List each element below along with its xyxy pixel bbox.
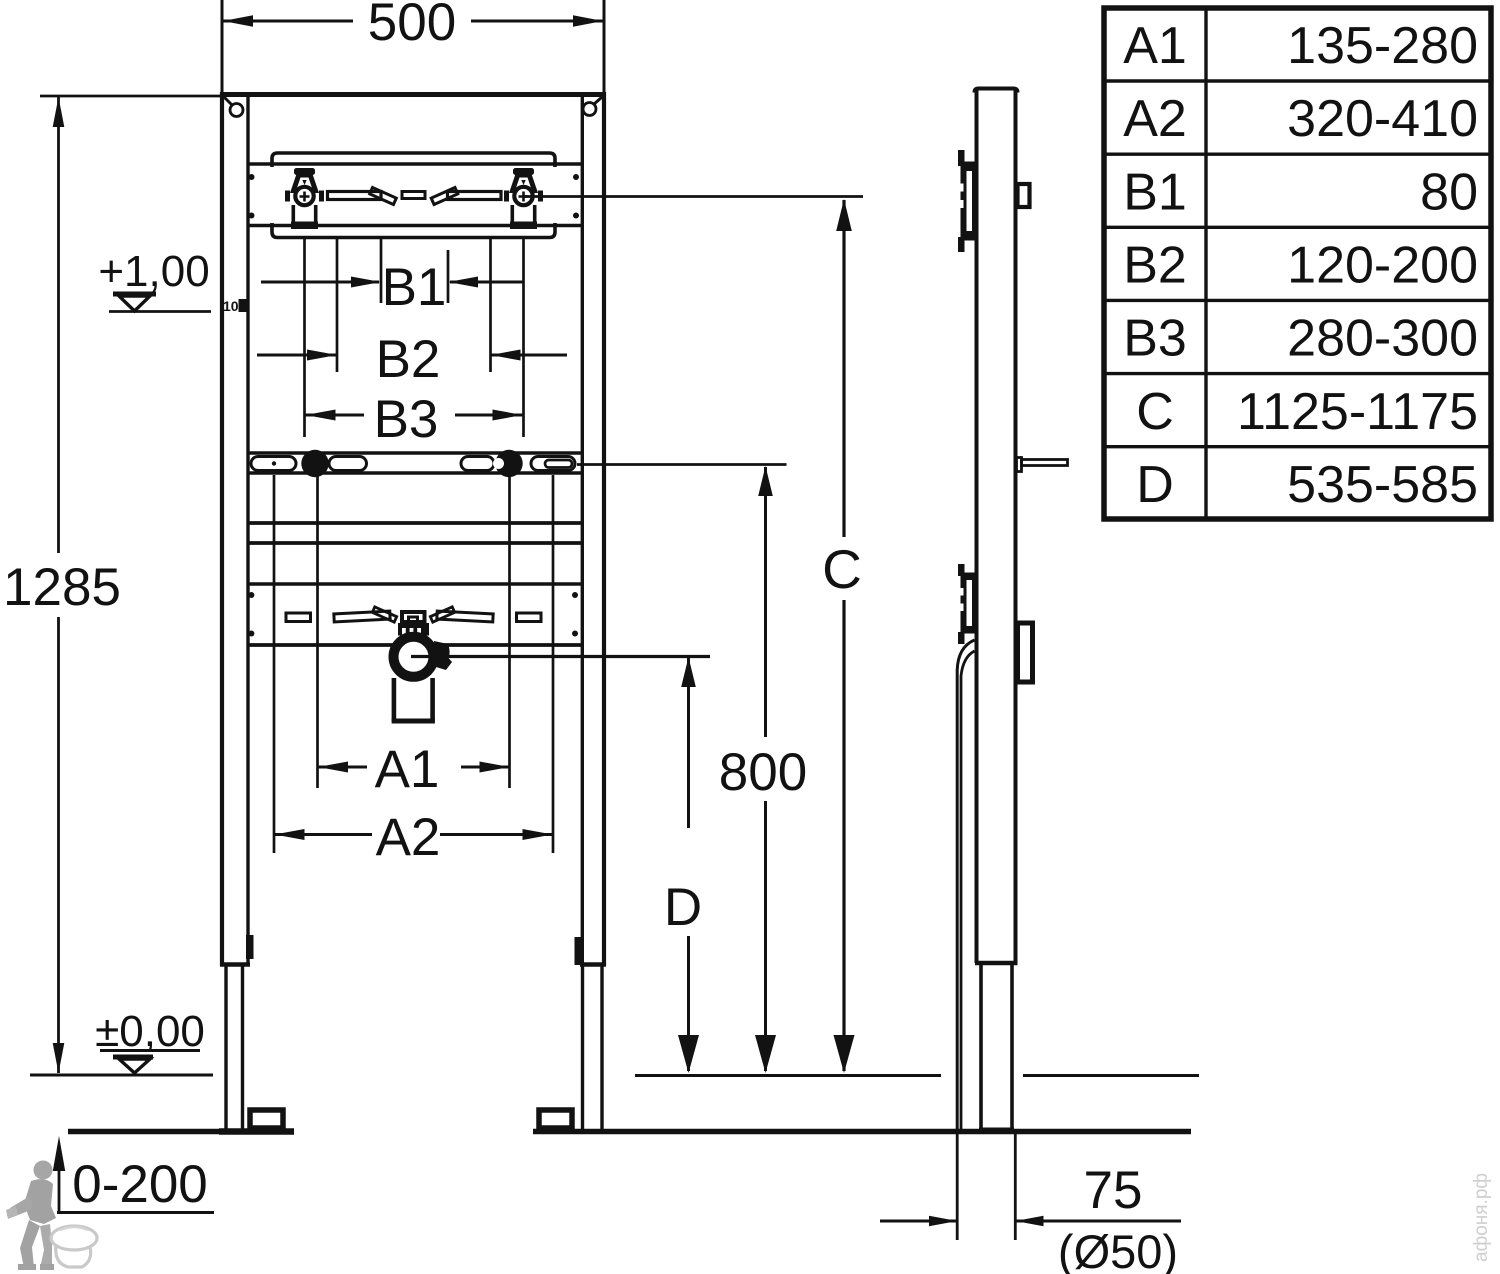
dim 500 extension line right bbox=[603, 0, 606, 96]
dim B3 bbox=[306, 410, 523, 421]
left foot baseline bbox=[219, 1128, 294, 1135]
svg-text:D: D bbox=[664, 878, 702, 937]
front frame outer right column bbox=[602, 92, 606, 966]
front frame outer left column bbox=[220, 92, 224, 966]
ext line bolt left centre bbox=[303, 237, 306, 437]
table row A2 bbox=[1123, 90, 1478, 148]
side lower wall bracket bbox=[956, 564, 977, 644]
ext line B1 left bbox=[380, 237, 383, 303]
leader line from faucet bolts bbox=[524, 195, 863, 198]
svg-text:D: D bbox=[1136, 456, 1174, 514]
svg-text:A1: A1 bbox=[1123, 17, 1187, 75]
svg-text:800: 800 bbox=[719, 743, 807, 802]
svg-text:1285: 1285 bbox=[3, 558, 121, 617]
drain band top line bbox=[248, 582, 582, 585]
watermark toilet bbox=[51, 1226, 97, 1267]
svg-text:афоня.рф: афоня.рф bbox=[1471, 1173, 1492, 1262]
drain band screw dots bbox=[248, 592, 578, 637]
dimension table bbox=[1104, 8, 1491, 519]
ext line 75 right bbox=[1014, 1134, 1017, 1240]
drain clamp ring bbox=[394, 637, 434, 677]
top band tie rod left angled bbox=[370, 188, 397, 205]
top band tie rod right bbox=[448, 192, 502, 200]
svg-text:280-300: 280-300 bbox=[1287, 310, 1478, 368]
dim 75 bbox=[880, 1216, 1181, 1226]
svg-text:(Ø50): (Ø50) bbox=[1058, 1225, 1178, 1274]
ext line A2 right bbox=[552, 475, 555, 853]
svg-text:120-200: 120-200 bbox=[1287, 237, 1478, 295]
right telescopic leg bbox=[583, 966, 603, 1129]
side upper stub bbox=[1018, 184, 1030, 207]
table row B1 bbox=[1123, 163, 1478, 221]
table row A1 bbox=[1123, 17, 1478, 75]
dim 500 extension line left bbox=[221, 0, 224, 96]
front frame inner right column bbox=[581, 97, 584, 964]
basin rail slot 4 inner bbox=[545, 460, 572, 468]
side drain elbow outer bbox=[957, 640, 974, 1129]
side drain elbow inner bbox=[961, 651, 975, 1129]
svg-text:500: 500 bbox=[368, 0, 456, 52]
svg-text:A1: A1 bbox=[375, 740, 440, 799]
drain band tab right bbox=[430, 607, 454, 622]
side leg bbox=[979, 965, 1014, 1130]
top band centre plate bbox=[402, 192, 425, 199]
drain clamp connector bbox=[398, 612, 429, 636]
svg-text:B3: B3 bbox=[374, 390, 439, 449]
drain band rod left long bbox=[334, 611, 390, 622]
ext line A1 left bbox=[316, 475, 319, 788]
basin rail slot 1 bbox=[251, 457, 296, 471]
svg-text:80: 80 bbox=[1420, 163, 1478, 221]
dim D line bbox=[678, 657, 699, 1073]
svg-text:+1,00: +1,00 bbox=[98, 247, 209, 296]
faucet bolt right bbox=[504, 168, 543, 229]
dim B1 bbox=[261, 277, 523, 288]
frame wall anchor mark 10 bbox=[223, 298, 247, 314]
side fixing pin bbox=[1017, 458, 1068, 472]
svg-text:135-280: 135-280 bbox=[1287, 17, 1478, 75]
dim A1 bbox=[318, 762, 510, 773]
front frame top edge bbox=[220, 92, 606, 97]
side profile right edge bbox=[1014, 91, 1018, 964]
left column adjuster stub bbox=[246, 935, 254, 959]
svg-text:75: 75 bbox=[1084, 1161, 1143, 1220]
table row C bbox=[1136, 383, 1478, 441]
top band upper bar bbox=[272, 153, 555, 167]
table row B3 bbox=[1123, 310, 1478, 368]
dim 800 line bbox=[755, 466, 776, 1073]
left telescopic leg bbox=[226, 966, 243, 1129]
level mark ±0,00 symbol bbox=[113, 1057, 153, 1073]
drain band rod right long bbox=[437, 611, 493, 622]
svg-text:C: C bbox=[822, 538, 862, 600]
ext line bolt right centre bbox=[522, 237, 525, 437]
front frame corner screw right bbox=[583, 97, 602, 116]
svg-text:B1: B1 bbox=[382, 258, 447, 317]
left column bottom cap bbox=[220, 962, 250, 967]
side upper wall bracket bbox=[956, 150, 977, 252]
basin bolt knob right bbox=[493, 450, 523, 477]
level mark +1,00 symbol bbox=[109, 294, 211, 312]
drain band rod right outer bbox=[517, 613, 542, 622]
dim 0-200 arrow bbox=[53, 1136, 214, 1213]
top band upper line bbox=[248, 162, 582, 166]
leader line from basin rail bbox=[577, 463, 787, 466]
top band screw dots bbox=[249, 174, 580, 219]
faucet bolt left bbox=[285, 168, 324, 229]
svg-text:535-585: 535-585 bbox=[1287, 456, 1478, 514]
basin rail slot 2 bbox=[329, 457, 367, 471]
watermark plumber figure bbox=[6, 1161, 56, 1271]
svg-text:0-200: 0-200 bbox=[72, 1155, 208, 1214]
floor level line left bbox=[30, 1074, 213, 1077]
dim B2 bbox=[257, 350, 567, 361]
dim A2 bbox=[275, 829, 553, 840]
left foot plate bbox=[250, 1110, 283, 1128]
basin rail top line bbox=[248, 451, 582, 454]
side lower stub bbox=[1018, 623, 1033, 682]
top band lower bar bbox=[272, 223, 555, 238]
basin rail slot 3 bbox=[461, 457, 494, 471]
right column adjuster stub bbox=[575, 937, 584, 965]
ext line A1 right bbox=[508, 475, 511, 788]
top band lower line bbox=[248, 224, 582, 228]
dim 1285 top extension line bbox=[40, 95, 222, 98]
frame crossbar lower bbox=[248, 541, 582, 545]
drain pipe stub bbox=[392, 676, 435, 722]
side profile bottom cap bbox=[975, 961, 1018, 965]
raw floor thick line left bbox=[68, 1129, 293, 1135]
drain band rod left outer bbox=[286, 613, 311, 622]
svg-text:A2: A2 bbox=[376, 808, 441, 867]
ext line B2 left bbox=[336, 237, 339, 372]
right foot plate bbox=[539, 1110, 572, 1128]
dim 1285 line bbox=[53, 97, 65, 1073]
svg-text:B3: B3 bbox=[1123, 310, 1187, 368]
ext line 75 left bbox=[956, 1134, 959, 1240]
drain band tab left bbox=[372, 607, 396, 622]
dim C line bbox=[834, 199, 855, 1073]
basin rail slot 4 bbox=[531, 457, 575, 471]
side profile left edge bbox=[975, 91, 979, 964]
raw floor thick line right bbox=[533, 1129, 1191, 1135]
svg-text:B2: B2 bbox=[1123, 237, 1187, 295]
top band tie rod right angled bbox=[431, 188, 458, 205]
table row D bbox=[1136, 456, 1478, 514]
level mark ±0,00 underline bbox=[100, 1049, 200, 1052]
drain clamp screw bbox=[434, 641, 452, 670]
ext line A2 left bbox=[273, 475, 276, 853]
svg-text:B1: B1 bbox=[1123, 163, 1187, 221]
basin rail bottom line bbox=[248, 471, 582, 474]
basin rail slot 1 pin bbox=[272, 461, 276, 465]
drain band bottom line bbox=[248, 643, 582, 647]
svg-text:1125-1175: 1125-1175 bbox=[1237, 383, 1478, 441]
svg-text:C: C bbox=[1136, 383, 1174, 441]
front frame inner left column bbox=[246, 97, 249, 964]
right column bottom cap bbox=[580, 962, 606, 967]
table row B2 bbox=[1123, 237, 1478, 295]
ext line B1 right bbox=[447, 250, 450, 303]
basin bolt knob left bbox=[301, 450, 328, 477]
ext line B2 right bbox=[489, 237, 492, 372]
floor level line centre bbox=[635, 1074, 941, 1077]
svg-text:B2: B2 bbox=[376, 330, 441, 389]
svg-text:10: 10 bbox=[223, 298, 239, 314]
leader line from drain bbox=[411, 655, 710, 658]
floor level line right bbox=[1023, 1074, 1199, 1077]
side profile top cap bbox=[975, 89, 1018, 93]
svg-text:A2: A2 bbox=[1123, 90, 1187, 148]
svg-text:±0,00: ±0,00 bbox=[95, 1007, 205, 1056]
front frame corner screw left bbox=[224, 97, 243, 117]
dim 500 line bbox=[223, 15, 603, 27]
svg-text:320-410: 320-410 bbox=[1287, 90, 1478, 148]
frame crossbar upper bbox=[248, 521, 582, 525]
top band tie rod left bbox=[328, 192, 382, 200]
